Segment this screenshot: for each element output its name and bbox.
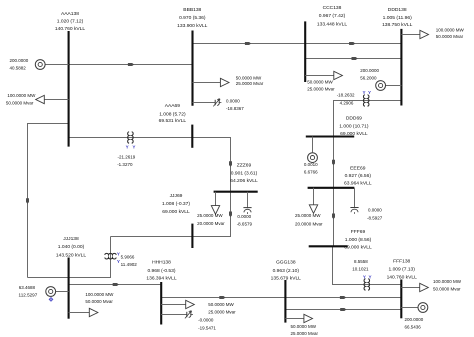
svg-text:ZZZ69: ZZZ69: [237, 162, 252, 168]
wire line DDD138-DDD69 via transformer: [334, 101, 402, 137]
generator AAA138 output values: [10, 58, 29, 71]
flow arrow on line BBB138-CCC138: [245, 42, 251, 45]
svg-text:Y: Y: [132, 144, 135, 149]
svg-text:Y: Y: [362, 90, 365, 95]
svg-text:0.963 (2.10): 0.963 (2.10): [273, 268, 300, 274]
svg-text:Y: Y: [117, 259, 120, 264]
generator DDD69 output values: [304, 162, 318, 174]
svg-text:Y: Y: [126, 144, 129, 149]
node BBB138 labels: [177, 7, 208, 29]
svg-text:140.760 kVLL: 140.760 kVLL: [55, 26, 86, 32]
wire line ZZZ69-JJJ69: [111, 192, 231, 237]
shunt capacitor at EEE69: [350, 188, 358, 214]
svg-text:69.000 kVLL: 69.000 kVLL: [344, 244, 372, 250]
node AAA138 labels: [55, 11, 86, 32]
shunt BBB138 values: [226, 99, 244, 112]
bus GGG138: [284, 280, 286, 323]
svg-text:0.0000: 0.0000: [237, 214, 251, 219]
load HHH138 values: [208, 302, 236, 315]
transformer AAA138-AAA69: [128, 132, 134, 144]
bus EEE69: [308, 187, 355, 189]
node GGG138 labels: [271, 260, 302, 282]
svg-text:25.0000 MW: 25.0000 MW: [197, 213, 223, 218]
svg-text:0.927 (6.56): 0.927 (6.56): [345, 173, 372, 179]
svg-text:25.0000 Mvar: 25.0000 Mvar: [307, 86, 335, 91]
svg-text:25.0000 Mvar: 25.0000 Mvar: [208, 309, 236, 314]
slack bus marker diamond: [49, 298, 53, 302]
svg-text:50.0000 Mvar: 50.0000 Mvar: [433, 286, 461, 291]
bus AAA138: [68, 31, 70, 147]
svg-text:1.008 (5.72): 1.008 (5.72): [159, 111, 186, 117]
load BBB138 values: [236, 76, 264, 87]
wire line BBB138-CCC138: [193, 43, 306, 45]
bus ZZZ69: [214, 191, 258, 193]
svg-text:5.9066: 5.9066: [121, 254, 135, 259]
svg-text:0.967 (7.42): 0.967 (7.42): [319, 13, 346, 19]
load JJJ138 values: [85, 292, 114, 304]
svg-text:Y: Y: [368, 90, 371, 95]
svg-text:69.531 kVLL: 69.531 kVLL: [159, 118, 187, 124]
generator JJJ138 output values: [19, 285, 38, 297]
generator at DDD69: [308, 137, 318, 163]
svg-text:DDD69: DDD69: [346, 116, 362, 122]
load at ZZZ69 (arrow down): [211, 192, 219, 215]
svg-text:112.5297: 112.5297: [19, 292, 38, 297]
svg-text:25.0000 Mvar: 25.0000 Mvar: [236, 81, 264, 86]
load at BBB138: [193, 78, 230, 86]
svg-text:133.900 kVLL: 133.900 kVLL: [177, 23, 208, 29]
svg-text:66.5436: 66.5436: [405, 325, 422, 330]
generator DDD138 output values: [360, 68, 379, 80]
load at GGG138: [285, 314, 312, 322]
svg-text:63.964 kVLL: 63.964 kVLL: [344, 180, 372, 186]
bus HHH138: [160, 282, 162, 325]
flow arrow on line CCC138-DDD138 circuit 1: [349, 42, 355, 45]
wire line DDD69-EEE69: [333, 137, 335, 188]
node CCC138 labels: [317, 5, 348, 27]
wire line JJJ138-HHH138: [69, 284, 162, 286]
svg-text:40.5882: 40.5882: [10, 66, 27, 71]
flow arrow on line GGG138-FFF138 circuit 1: [340, 296, 346, 299]
svg-text:4.2906: 4.2906: [340, 101, 354, 106]
svg-text:DDD138: DDD138: [388, 7, 407, 13]
bus BBB138: [191, 31, 193, 106]
transformer DDD138-DDD69: [363, 95, 369, 107]
switched shunt at BBB138: [193, 99, 222, 107]
wire line HHH138-GGG138-FFF138: [161, 297, 401, 299]
load EEE69 values: [295, 213, 323, 226]
flow arrow on line ZZZ69-JJJ69: [229, 212, 232, 218]
svg-text:56.2000: 56.2000: [360, 75, 377, 80]
load at JJJ138: [69, 308, 98, 316]
svg-text:133.448 kVLL: 133.448 kVLL: [317, 21, 348, 27]
switched shunt at HHH138: [161, 311, 193, 319]
node HHH138 labels: [146, 259, 177, 281]
svg-text:50.0000 MW: 50.0000 MW: [208, 302, 234, 307]
svg-text:50.0000 Mvar: 50.0000 Mvar: [436, 34, 464, 39]
shunt HHH138 values: [198, 318, 216, 331]
bus AAA69: [191, 125, 193, 148]
transformer DDD138-DDD69 winding symbols: [362, 90, 371, 95]
generator at DDD138: [376, 81, 402, 91]
wire line CCC138-DDD138 circuit 1: [305, 43, 401, 45]
flow arrow on line HHH138-GGG138: [219, 296, 225, 299]
flow arrow on line GGG138-FFF138 circuit 2: [340, 308, 346, 311]
svg-text:200.0000: 200.0000: [10, 58, 29, 63]
svg-text:-19.5471: -19.5471: [198, 325, 216, 330]
load at EEE69 (arrow down): [309, 188, 317, 214]
svg-text:100.0000 MW: 100.0000 MW: [85, 292, 114, 297]
transformer AAA138-AAA69 winding symbols: [126, 144, 136, 149]
svg-text:50.0000 MW: 50.0000 MW: [291, 324, 317, 329]
svg-text:100.0000 MW: 100.0000 MW: [436, 28, 465, 33]
load at CCC138: [305, 71, 342, 79]
svg-text:25.0000 Mvar: 25.0000 Mvar: [291, 331, 319, 336]
svg-text:50.0000 Mvar: 50.0000 Mvar: [85, 299, 113, 304]
wire line GGG138-FFF138: [285, 309, 401, 311]
load at DDD138: [401, 30, 428, 38]
svg-text:FFF69: FFF69: [351, 229, 366, 235]
svg-text:-8.6579: -8.6579: [237, 222, 253, 227]
generator FFF138 output values: [405, 317, 424, 329]
svg-text:-1.3270: -1.3270: [117, 162, 133, 167]
svg-text:BBB138: BBB138: [183, 7, 201, 13]
svg-text:1.009 (7.13): 1.009 (7.13): [388, 267, 415, 273]
svg-text:50.0000 MW: 50.0000 MW: [307, 79, 333, 84]
load CCC138 values: [307, 79, 335, 91]
svg-text:11.4902: 11.4902: [121, 262, 138, 267]
svg-text:-18.2632: -18.2632: [337, 93, 355, 98]
bus FFF138: [400, 280, 402, 319]
load GGG138 values: [291, 324, 319, 336]
svg-text:100.0000 MW: 100.0000 MW: [7, 93, 36, 98]
node DDD138 labels: [382, 7, 413, 28]
bus FFF69: [309, 245, 348, 247]
load at FFF138: [401, 283, 428, 291]
svg-text:Y: Y: [368, 274, 371, 279]
node DDD69 labels: [339, 116, 369, 138]
flow arrow on line AAA138-JJJ138: [26, 198, 29, 204]
wire line FFF69-FFF138 via transformer: [333, 246, 402, 284]
node EEE69 labels: [344, 166, 372, 187]
flow arrow on line AAA138-BBB138: [128, 63, 134, 66]
load at HHH138: [161, 300, 194, 308]
load at AAA138 (arrow left): [36, 95, 69, 103]
svg-text:0.968 (-0.53): 0.968 (-0.53): [147, 268, 175, 274]
svg-text:200.0000: 200.0000: [360, 68, 379, 73]
svg-text:GGG138: GGG138: [276, 260, 296, 266]
transformer JJJ138-JJJ69 flow values: [121, 254, 138, 267]
svg-text:EEE69: EEE69: [350, 166, 366, 172]
transformer FFF69-FFF138 flow values: [352, 259, 369, 271]
wire line CCC138-DDD138 circuit 2: [305, 58, 401, 60]
svg-text:1.005 (11.96): 1.005 (11.96): [383, 15, 413, 21]
svg-text:63.4688: 63.4688: [19, 285, 36, 290]
svg-text:CCC138: CCC138: [323, 5, 342, 11]
shunt EEE69 values: [367, 208, 383, 221]
svg-text:-18.8367: -18.8367: [226, 106, 244, 111]
bus JJJ69: [191, 224, 193, 248]
transformer FFF69-FFF138 winding symbols: [363, 274, 372, 279]
svg-text:-0.0000: -0.0000: [198, 318, 214, 323]
svg-text:1.020 (7.12): 1.020 (7.12): [57, 19, 84, 25]
svg-text:69.000 kVLL: 69.000 kVLL: [340, 131, 368, 137]
flow arrow on line AAA69-ZZZ69: [229, 161, 232, 167]
wire line JJJ69-JJJ138 via transformer: [28, 237, 111, 278]
svg-text:Y: Y: [363, 274, 366, 279]
svg-text:143.520 kVLL: 143.520 kVLL: [56, 252, 87, 258]
shunt capacitor at ZZZ69: [243, 192, 251, 214]
node FFF69 labels: [344, 229, 372, 250]
svg-text:20.0000 Mvar: 20.0000 Mvar: [295, 222, 323, 227]
generator at FFF138: [401, 303, 428, 313]
generator at JJJ138 (slack): [46, 287, 69, 297]
transformer FFF69-FFF138: [364, 279, 370, 291]
svg-text:64.206 kVLL: 64.206 kVLL: [230, 178, 258, 184]
generator at AAA138: [35, 60, 68, 70]
svg-text:138.750 kVLL: 138.750 kVLL: [382, 22, 413, 28]
bus DDD138: [400, 29, 402, 106]
flow arrow on line DDD69-EEE69: [332, 160, 335, 166]
svg-text:20.0000 Mvar: 20.0000 Mvar: [197, 221, 225, 226]
bus JJJ138: [68, 258, 70, 319]
svg-text:1.008 (-0.37): 1.008 (-0.37): [162, 201, 190, 207]
load AAA138 values: [6, 93, 36, 105]
shunt ZZZ69 values: [237, 214, 253, 227]
flow arrow on line EEE69-FFF69: [332, 214, 335, 220]
bus CCC138: [304, 21, 306, 82]
flow arrow on line JJJ138-HHH138: [113, 283, 119, 286]
svg-text:50.0000 MW: 50.0000 MW: [236, 76, 262, 81]
node FFF138 labels: [387, 259, 418, 281]
bus DDD69: [306, 135, 354, 137]
wire line AAA69-ZZZ69: [192, 138, 230, 192]
load DDD138 values: [436, 28, 465, 39]
load FFF138 values: [433, 279, 462, 291]
svg-text:25.0000 MW: 25.0000 MW: [295, 213, 321, 218]
svg-text:200.0000: 200.0000: [405, 317, 424, 322]
transformer DDD138-DDD69 flow values: [337, 93, 355, 106]
svg-text:6.6766: 6.6766: [304, 169, 318, 174]
svg-text:0.970 (5.36): 0.970 (5.36): [179, 15, 206, 21]
svg-text:Y: Y: [117, 252, 120, 257]
svg-text:0.0000: 0.0000: [226, 99, 240, 104]
svg-text:1.000 (8.56): 1.000 (8.56): [345, 237, 372, 243]
node JJJ138 labels: [56, 236, 87, 258]
svg-text:10.1021: 10.1021: [352, 267, 369, 272]
wire line AAA138-AAA69 via transformer: [69, 137, 193, 139]
node ZZZ69 labels: [230, 162, 258, 184]
svg-text:AAA138: AAA138: [61, 11, 79, 17]
svg-text:AAA69: AAA69: [165, 103, 181, 109]
svg-text:140.760 kVLL: 140.760 kVLL: [387, 275, 418, 281]
wire line AAA138-BBB138: [45, 64, 192, 66]
svg-text:50.0000 Mvar: 50.0000 Mvar: [6, 100, 34, 105]
transformer JJJ138-JJJ69 winding symbols: [117, 252, 120, 264]
svg-text:FFF138: FFF138: [393, 259, 410, 265]
svg-text:100.0000 MW: 100.0000 MW: [433, 279, 462, 284]
transformer JJJ138-JJJ69: [105, 253, 117, 259]
svg-text:JJJ69: JJJ69: [170, 193, 183, 199]
node JJJ69 labels: [162, 193, 190, 215]
svg-text:69.000 kVLL: 69.000 kVLL: [162, 209, 190, 215]
svg-text:135.679 kVLL: 135.679 kVLL: [271, 276, 302, 282]
svg-text:0.0000: 0.0000: [368, 208, 382, 213]
load ZZZ69 values: [197, 213, 225, 226]
transformer AAA138-AAA69 flow values: [117, 154, 136, 167]
svg-text:136.394 kVLL: 136.394 kVLL: [146, 276, 177, 282]
svg-text:1.040 (0.00): 1.040 (0.00): [58, 244, 85, 250]
svg-text:-8.5927: -8.5927: [367, 215, 383, 220]
wire line EEE69-FFF69: [333, 188, 335, 247]
flow arrow on line CCC138-DDD138 circuit 2: [352, 57, 358, 60]
svg-text:8.5558: 8.5558: [354, 259, 368, 264]
svg-text:-21.2619: -21.2619: [118, 154, 136, 159]
svg-text:0.901 (3.61): 0.901 (3.61): [231, 171, 258, 177]
wire line AAA138-JJJ138: [28, 124, 69, 278]
node AAA69 labels: [159, 103, 187, 124]
svg-text:JJJ138: JJJ138: [63, 236, 79, 242]
svg-text:HHH138: HHH138: [152, 259, 171, 265]
svg-text:1.000 (10.71): 1.000 (10.71): [339, 124, 369, 130]
svg-text:0.0010: 0.0010: [304, 162, 318, 167]
